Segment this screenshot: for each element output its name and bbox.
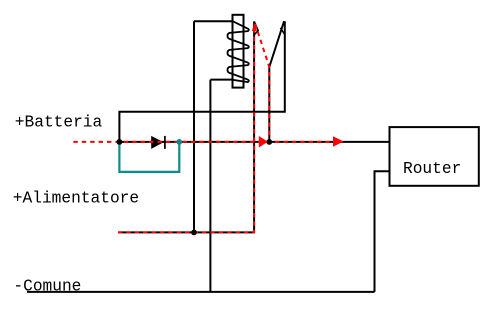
Router box bbox=[390, 127, 479, 186]
wire: Router return down to -Comune line bbox=[375, 171, 390, 292]
diode D1 cathode bar bbox=[164, 136, 166, 149]
relay switch blade (common to NC contact) bbox=[269, 21, 284, 67]
wire: relay NO contact vertical down to +Alimentatore line bbox=[118, 21, 254, 232]
red flow arrow into +Batteria junction bbox=[259, 136, 268, 148]
junction node at +Alimentatore / coil lead bbox=[191, 230, 197, 236]
diode D1 triangle bbox=[151, 136, 163, 149]
teal jumper wire bypassing diode bbox=[119, 142, 179, 172]
arrowhead of switch blade at NC contact bbox=[280, 28, 284, 35]
teal node dot at diode cathode side bbox=[176, 139, 182, 145]
wire: -Comune horizontal line bbox=[27, 291, 375, 293]
wire: relay coil top lead bbox=[194, 20, 233, 22]
red flow arrow up at NO contact bbox=[252, 23, 257, 31]
junction node at switch common / main line bbox=[266, 139, 272, 145]
svg-text:+Batteria: +Batteria bbox=[15, 113, 103, 131]
relay K1 coil core rectangle bbox=[233, 15, 244, 88]
wire: vertical from coil top lead down to +Alimentatore junction bbox=[193, 21, 195, 232]
wire: +Batteria main horizontal line to Router bbox=[119, 141, 389, 143]
wire: loop from +Batteria node up and right to relay NC contact bbox=[119, 21, 284, 142]
wire: vertical from coil bottom lead down to -Comune line bbox=[209, 80, 211, 292]
svg-text:+Alimentatore: +Alimentatore bbox=[13, 190, 139, 208]
svg-text:Router: Router bbox=[403, 160, 461, 178]
red current path overlay on NO contact and +Alimentatore line bbox=[118, 24, 254, 233]
red flow arrow toward Router bbox=[333, 136, 344, 147]
svg-text:-Comune: -Comune bbox=[13, 278, 81, 296]
relay K1 coil winding bbox=[227, 21, 248, 82]
arrowhead at NO contact tip bbox=[254, 21, 258, 34]
wire: relay coil bottom lead bbox=[210, 79, 232, 81]
junction node at +Batteria bbox=[117, 139, 123, 145]
wire: relay common pole vertical to +Batteria node bbox=[268, 67, 270, 142]
red current path overlay on +Batteria line bbox=[73, 141, 334, 143]
red current path: blade position diagonal and common vertical bbox=[255, 24, 269, 142]
